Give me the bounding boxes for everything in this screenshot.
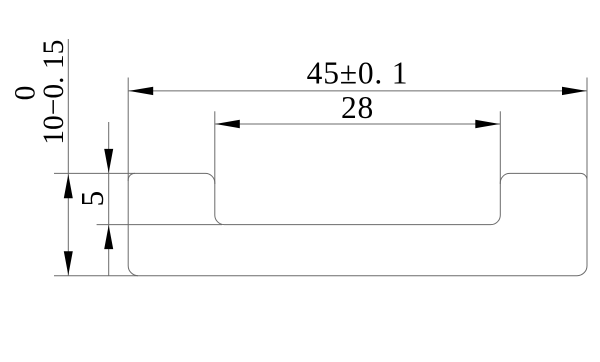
svg-text:10−0. 15: 10−0. 15 <box>38 40 70 145</box>
wire: 5 dimension line <box>108 122 110 276</box>
label 5 <box>75 191 110 207</box>
arrow: 5 lower (pointing up at y=224.6) <box>104 225 113 249</box>
arrow: 10 up <box>64 174 73 198</box>
wire: 28 left extension line <box>214 111 216 184</box>
svg-text:5: 5 <box>75 191 110 207</box>
wire: 10 bottom extension line <box>54 275 138 277</box>
arrow: 28 right <box>475 120 500 128</box>
wire: 5 extension line <box>97 224 222 226</box>
wire: 45 dimension line <box>128 90 587 92</box>
wire: 45 right extension line <box>586 78 588 182</box>
arrow: 45 right <box>562 87 587 95</box>
arrow: 5 upper (pointing down at y=173.4) <box>104 149 113 173</box>
svg-text:28: 28 <box>341 90 374 125</box>
arrow: 45 left <box>129 87 154 95</box>
arrow: 10 down <box>64 251 73 275</box>
wire: 10 top extension line <box>54 172 135 174</box>
svg-text:45±0. 1: 45±0. 1 <box>307 56 409 91</box>
arrow: 28 left <box>215 120 240 128</box>
wire: 10 dimension line <box>67 39 69 276</box>
svg-text:0: 0 <box>10 86 42 101</box>
wire: 28 right extension line <box>499 111 501 184</box>
profile outline <box>128 173 587 275</box>
label 10 0/-0.15 <box>10 40 70 145</box>
wire: 28 dimension line <box>215 123 501 125</box>
wire: 45 left extension line <box>127 78 129 182</box>
